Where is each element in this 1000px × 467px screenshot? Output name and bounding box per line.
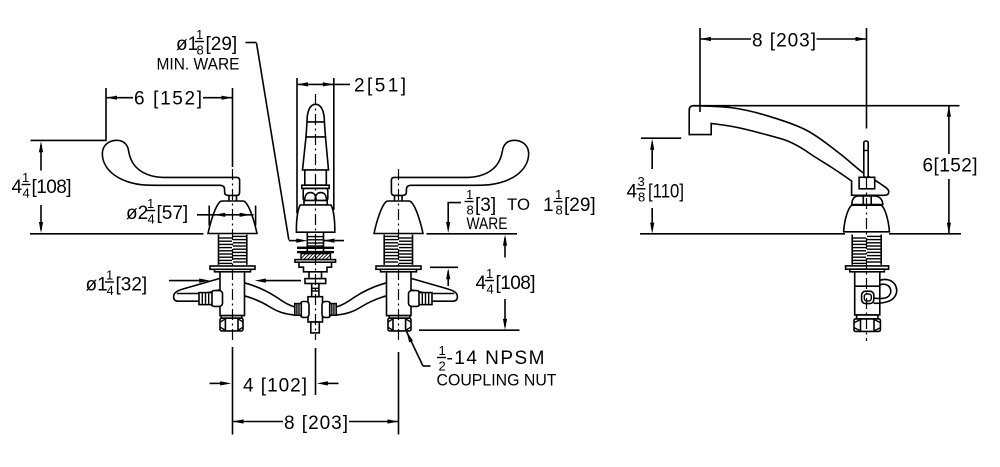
note 1/8[3] TO 1 1/8[29] WARE bbox=[430, 187, 596, 286]
neck bbox=[308, 272, 310, 279]
spout base block bbox=[305, 170, 327, 185]
nut top plate (side view) bbox=[857, 315, 878, 319]
dimension 4 1/4 [108] right bbox=[419, 235, 536, 331]
shank sides (side view) bbox=[851, 235, 853, 265]
dimension 2 [51] spout width bbox=[297, 76, 406, 214]
flange bbox=[302, 185, 329, 188]
dimension 4 [102] bbox=[210, 347, 339, 435]
coupling nut bbox=[388, 318, 411, 331]
spout shank threads bbox=[308, 237, 323, 246]
lock washer bands bbox=[297, 247, 334, 249]
svg-text:1: 1 bbox=[147, 196, 154, 211]
compression nut bbox=[211, 291, 223, 307]
dimension 6 [152] (side view) bbox=[923, 106, 978, 234]
tee left ferrule bbox=[295, 304, 302, 316]
svg-text:1: 1 bbox=[543, 195, 554, 216]
shank sides bbox=[218, 235, 220, 265]
swivel balls bbox=[305, 193, 317, 201]
svg-text:8: 8 bbox=[638, 190, 645, 205]
nut top plate bbox=[389, 316, 410, 319]
svg-text:3: 3 bbox=[638, 174, 645, 189]
svg-text:4: 4 bbox=[487, 282, 494, 297]
handle (right wrist blade) bbox=[391, 140, 528, 195]
svg-text:TO: TO bbox=[507, 195, 530, 214]
ferrule bbox=[199, 293, 212, 305]
ferrule bbox=[419, 293, 432, 305]
nut top plate bbox=[221, 316, 242, 319]
outlet tube to spout (S curve) bbox=[335, 283, 387, 308]
outlet tube to spout (S curve) bbox=[244, 283, 296, 308]
valve body bbox=[220, 272, 245, 316]
svg-text:4 [102]: 4 [102] bbox=[243, 376, 307, 397]
svg-text:1: 1 bbox=[439, 343, 446, 358]
tee right ferrule bbox=[330, 304, 337, 316]
svg-text:[57]: [57] bbox=[157, 203, 189, 224]
handle neck bbox=[228, 195, 230, 201]
svg-text:[110]: [110] bbox=[648, 182, 684, 203]
inlet tube (bent, cut off) bbox=[174, 279, 220, 302]
upper block bbox=[305, 279, 326, 284]
knurled locknut bbox=[301, 254, 331, 260]
drop pipe bbox=[311, 284, 313, 297]
stepped cup bbox=[299, 262, 332, 272]
svg-text:6[152]: 6[152] bbox=[923, 156, 978, 177]
svg-text:[3]: [3] bbox=[475, 195, 496, 216]
mounting washer bbox=[376, 266, 421, 269]
valve body (side view) bbox=[855, 272, 880, 315]
svg-text:8 [203]: 8 [203] bbox=[284, 413, 348, 434]
svg-text:WARE: WARE bbox=[467, 214, 508, 233]
spout arm and outlet bbox=[689, 106, 889, 196]
swivel collar bbox=[852, 196, 883, 205]
svg-text:1: 1 bbox=[486, 266, 493, 281]
supply loop tube inner bbox=[874, 284, 891, 298]
svg-text:4: 4 bbox=[148, 212, 155, 227]
spout centerline bbox=[315, 94, 317, 340]
svg-text:1: 1 bbox=[466, 187, 473, 202]
loop end cap bbox=[862, 291, 874, 303]
svg-text:4: 4 bbox=[12, 177, 23, 198]
tee right nut bbox=[322, 302, 331, 318]
inlet tube (bent, cut off) bbox=[412, 279, 458, 302]
valve body bbox=[387, 272, 412, 316]
dimension 4 3/8 [110] (side view) bbox=[627, 138, 685, 233]
note 1/2-14 NPSM COUPLING NUT with leader bbox=[407, 332, 557, 390]
spout top reference line bbox=[694, 105, 960, 107]
svg-text:1: 1 bbox=[555, 187, 562, 202]
spout taper bbox=[303, 137, 329, 170]
shank sides bbox=[412, 235, 414, 265]
escutcheon dome (side) bbox=[844, 205, 890, 232]
svg-text:1: 1 bbox=[22, 170, 29, 185]
deck line (side view, right of dome) bbox=[889, 233, 961, 235]
svg-text:ø2: ø2 bbox=[126, 203, 148, 224]
svg-text:4: 4 bbox=[23, 186, 30, 201]
coupling nut bbox=[220, 318, 243, 331]
svg-text:8: 8 bbox=[556, 203, 563, 218]
svg-text:ø1: ø1 bbox=[86, 275, 108, 296]
svg-text:[32]: [32] bbox=[116, 275, 148, 296]
spout shank sides bbox=[306, 233, 308, 253]
mounting washer bbox=[210, 266, 255, 269]
bonnet block bbox=[859, 177, 875, 189]
ref line top of handle + 6in extension bbox=[31, 88, 107, 140]
dimension o1 1/4 [32] shank bbox=[86, 268, 302, 299]
svg-text:4: 4 bbox=[627, 182, 638, 203]
svg-text:1: 1 bbox=[196, 27, 203, 42]
handle neck bbox=[401, 195, 403, 201]
svg-text:1: 1 bbox=[106, 268, 113, 283]
svg-text:COUPLING NUT: COUPLING NUT bbox=[437, 371, 557, 390]
escutcheon (bonnet dome) bbox=[208, 201, 257, 234]
handle (left wrist blade) bbox=[102, 140, 239, 195]
bell base bbox=[296, 205, 334, 232]
svg-text:[108]: [108] bbox=[32, 177, 72, 198]
svg-text:4: 4 bbox=[107, 283, 114, 298]
deck line (side view, left of dome) bbox=[640, 233, 845, 235]
svg-text:ø1: ø1 bbox=[176, 34, 198, 55]
svg-text:2[51]: 2[51] bbox=[354, 76, 406, 97]
compression nut bbox=[409, 291, 421, 307]
svg-text:[29]: [29] bbox=[206, 34, 238, 55]
svg-text:[29]: [29] bbox=[564, 195, 596, 216]
dimension 8 [203] bottom bbox=[233, 352, 399, 435]
dimension 4 1/4 [108] left bbox=[12, 141, 72, 233]
svg-text:MIN. WARE: MIN. WARE bbox=[157, 55, 240, 74]
tee left nut bbox=[300, 302, 309, 318]
dimension o2 1/4 [57] escutcheon bbox=[126, 196, 256, 227]
handle stem rod bbox=[864, 141, 868, 177]
shank threads bbox=[385, 236, 412, 263]
svg-text:8 [203]: 8 [203] bbox=[752, 31, 816, 52]
coupling nut (side view) bbox=[854, 319, 880, 332]
bell top plate bbox=[304, 201, 327, 206]
note o1 1/8 [29] MIN. WARE with leader bbox=[157, 27, 345, 243]
svg-text:[108]: [108] bbox=[496, 273, 536, 294]
mounting washer (side view) bbox=[846, 266, 889, 269]
tee tail bbox=[311, 322, 320, 333]
shank threads (side view) bbox=[853, 236, 881, 263]
spout nozzle cap bbox=[307, 104, 324, 122]
body joint line bbox=[855, 285, 880, 287]
side view centerline bbox=[866, 178, 868, 341]
deck line right segment bbox=[427, 233, 518, 235]
supply loop tube outer bbox=[874, 279, 897, 303]
deck line left segment bbox=[30, 233, 204, 235]
svg-text:-14 NPSM: -14 NPSM bbox=[447, 348, 545, 369]
dimension 6 [152] bbox=[106, 88, 233, 167]
right valve centerline bbox=[398, 169, 400, 341]
nozzle band bbox=[306, 122, 326, 137]
left valve centerline bbox=[232, 169, 234, 341]
dimension 8 [203] top (side view) bbox=[700, 28, 867, 129]
swivel ring housing bbox=[303, 188, 328, 200]
escutcheon (bonnet dome) bbox=[374, 201, 423, 234]
svg-text:4: 4 bbox=[476, 273, 487, 294]
tee body bbox=[308, 297, 323, 322]
shank threads bbox=[219, 236, 246, 263]
flange plate bbox=[295, 260, 336, 263]
svg-text:6 [152]: 6 [152] bbox=[134, 89, 202, 110]
